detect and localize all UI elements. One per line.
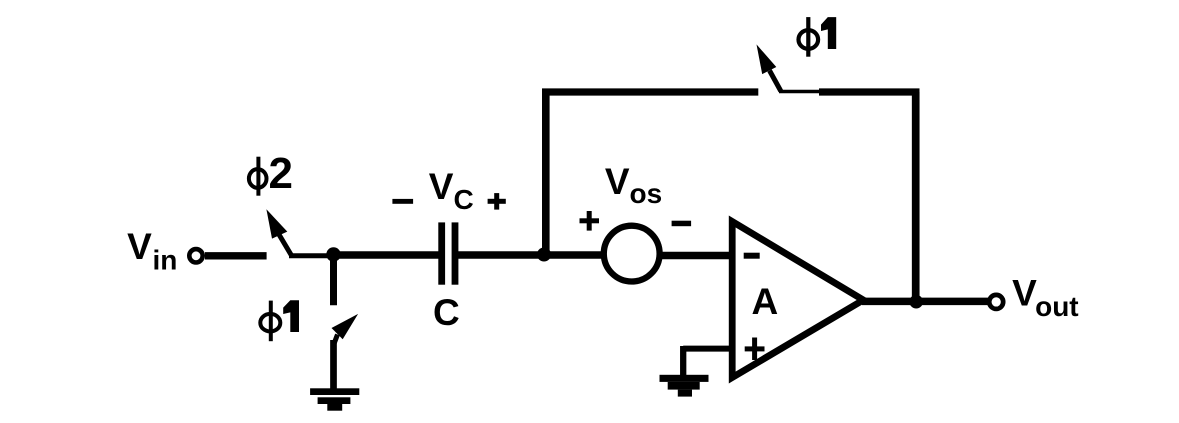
wire node A to capacitor C: [334, 251, 441, 259]
svg-text:in: in: [153, 244, 178, 275]
ground (op-amp non-inverting input): [660, 375, 709, 397]
label minus (Vos): [672, 221, 692, 227]
ground (below S1): [310, 388, 359, 410]
feedback right vertical wire: [912, 92, 920, 302]
switch S3 (phi1, top) blade with arrow: [757, 44, 781, 91]
svg-text:2: 2: [269, 149, 293, 198]
output terminal Vout: [989, 295, 1003, 309]
svg-text:os: os: [630, 178, 663, 209]
feedback top wire right segment: [819, 88, 920, 95]
wire node B to Vos: [545, 251, 606, 259]
wire Vos to op-amp inverting input: [660, 252, 730, 260]
wire node A down to switch S1: [330, 255, 337, 306]
wire ground to op-amp non-inverting input: [683, 346, 731, 376]
wire Vin terminal to switch S2 contact: [205, 252, 267, 259]
label Vin: [127, 226, 177, 275]
svg-text:C: C: [454, 184, 474, 215]
feedback left vertical wire: [542, 92, 550, 255]
label minus (Vc): [392, 199, 413, 204]
switch S1 (phi1) blade with arrow: [332, 314, 359, 343]
capacitor C plates: [438, 222, 458, 284]
svg-text:C: C: [433, 292, 460, 333]
op-amp A triangle: [732, 222, 863, 378]
label phi1 (top switch): [799, 17, 837, 57]
input terminal Vin: [189, 249, 202, 262]
svg-text:V: V: [1012, 273, 1037, 314]
label Vc: [429, 166, 474, 215]
label phi2: [249, 149, 293, 198]
label Vout: [1012, 273, 1079, 323]
node C junction dot (output/feedback): [909, 295, 923, 309]
feedback top wire left segment: [542, 88, 758, 95]
offset source Vos: [604, 226, 660, 282]
svg-text:out: out: [1035, 291, 1079, 322]
wire switch S1 pivot to ground: [330, 340, 337, 391]
wire op-amp output to Vout terminal: [862, 298, 988, 306]
label minus (inverting input): [744, 253, 760, 259]
wire switch S2 pivot to node A: [289, 253, 333, 258]
node A junction dot: [326, 247, 340, 261]
svg-text:V: V: [605, 161, 630, 202]
svg-text:V: V: [429, 166, 454, 207]
wire capacitor C to node B: [458, 251, 546, 259]
label plus (Vc): [488, 193, 506, 210]
wire switch S3 pivot segment: [779, 90, 822, 94]
label Vos: [605, 161, 662, 209]
label plus (non-inverting input): [745, 338, 765, 361]
node B junction dot: [537, 248, 551, 262]
svg-text:A: A: [752, 281, 779, 322]
label plus (Vos): [580, 211, 600, 231]
svg-text:V: V: [127, 226, 152, 267]
switch S2 (phi2) blade with arrow: [266, 209, 291, 255]
label phi1 (bottom switch): [260, 300, 299, 341]
